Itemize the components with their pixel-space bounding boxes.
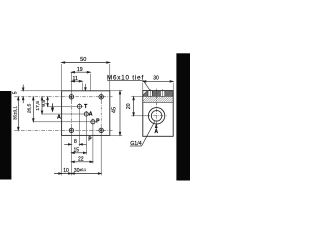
dimension 19 [71,71,90,73]
side view centerlines [147,89,167,128]
svg-text:A: A [57,114,61,120]
port A circle [84,112,88,116]
svg-text:8: 8 [74,139,77,145]
svg-text:A: A [89,112,93,118]
vertical extension lines [62,64,110,175]
plate top edge extension to left [21,90,62,92]
band separation line [143,95,173,97]
mounting hole bottom-right [99,128,103,132]
dimension 15 (bottom) [71,152,86,154]
svg-text:26,5: 26,5 [26,103,32,113]
svg-text:22: 22 [78,156,84,162]
plate corners up for 50 dim [61,64,63,91]
dimension 8 (bottom) [64,144,86,146]
dimension 30 (side view top) [143,81,173,91]
plate left edge extension down [61,135,63,175]
mounting hole top-right [99,95,103,99]
svg-text:5: 5 [13,91,19,94]
port T vertical [79,103,81,146]
front view plate outline [62,91,110,136]
svg-text:9,5: 9,5 [41,100,47,107]
slot edge lines [147,91,149,97]
dimension 35±0.1 (left) [17,97,19,131]
dimension 26,5 (left) [32,97,34,122]
port T circle [77,104,81,108]
svg-text:35±0,1: 35±0,1 [12,106,17,120]
port row extension lines (left) [21,91,97,122]
M6 hole centerline ticks [149,89,151,97]
hole row centerlines [14,97,112,131]
dimension 5 (left top) [22,85,24,104]
band bottom line [143,101,173,103]
dimension 9,5 (left) [47,97,49,107]
svg-text:A: A [154,129,158,135]
dimension 22 (bottom) [71,161,93,163]
T channel arrow at plate top [84,84,86,91]
port P vertical [92,119,94,164]
dimension 10 / 30±0.1 (bottom) [54,173,101,175]
right hole column [100,93,102,102]
side view block outline [143,91,173,137]
lower hatch sub-band [141,96,179,103]
svg-text:11: 11 [73,76,78,82]
svg-text:19: 19 [77,67,83,73]
left black margin bar [0,91,11,180]
svg-text:45: 45 [112,107,118,113]
svg-text:15: 15 [74,147,80,153]
hatch band of side view (M6 thread section) [0,0,1,1]
dimension 11 [71,80,82,82]
port A flow arrow under side view circle [155,125,157,130]
svg-text:30: 30 [153,76,159,82]
upper hatch sub-band [141,90,180,97]
G1/4 port bore circle outer [148,108,164,124]
port A vertical [85,111,87,155]
port P circle [91,120,95,124]
dimension 20 (side view left) [131,97,148,116]
svg-text:50: 50 [80,57,86,63]
M6 tapped hole slots (white) [148,91,165,96]
mounting hole bottom-left [69,128,73,132]
svg-text:17,5: 17,5 [35,101,41,111]
dimension 50 [62,62,110,64]
svg-text:10: 10 [63,168,69,174]
right black margin bar [176,53,190,180]
ext for 19 dim [89,74,91,91]
G1/4 port bore circle inner [151,111,162,122]
dimension 17,5 (left) [41,97,43,114]
ext for 11 dim [81,83,83,91]
svg-text:P: P [96,118,100,124]
dimension 45 [110,91,123,136]
mounting hole top-left [69,95,73,99]
section arrow A (left of plate) [51,103,53,111]
svg-text:20: 20 [126,103,132,109]
